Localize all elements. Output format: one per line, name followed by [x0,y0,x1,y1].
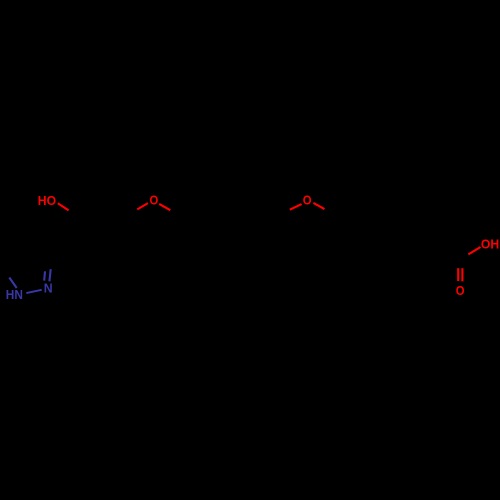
svg-text:OH: OH [481,238,499,252]
svg-text:HN: HN [6,288,23,302]
bond C2-O1 red half [137,203,148,209]
svg-text:HO: HO [38,194,56,208]
svg-text:O: O [456,284,465,298]
svg-text:O: O [150,193,159,207]
bond O1-CH2 red half [159,204,170,210]
bond C3=N2 blue half inner line [43,271,46,280]
bond pyrazole C3 - benzene (black) [52,250,68,251]
bond N1-N2 (blue) [26,290,41,293]
bond N1-C5 blue half [9,278,16,289]
bond CH2-O2 red half [290,204,302,210]
alkyl chain bonds O1..O2 (carbon, black) [170,200,451,265]
bond O2-CH2 red half [313,203,324,209]
svg-text:O: O [303,194,312,208]
benzene ring (carbon, black) [68,219,138,282]
bond C(=O)-OH red half [468,247,480,254]
C=O double bond red half line 1 [457,268,459,281]
pyrazole ring C-C bonds (carbon, black) [0,240,52,278]
bond O(H)-C1 red half [58,203,69,210]
C=O double bond red half line 2 [461,268,463,281]
svg-text:N: N [44,281,53,295]
bond C3=N2 blue half outer line [49,269,50,281]
